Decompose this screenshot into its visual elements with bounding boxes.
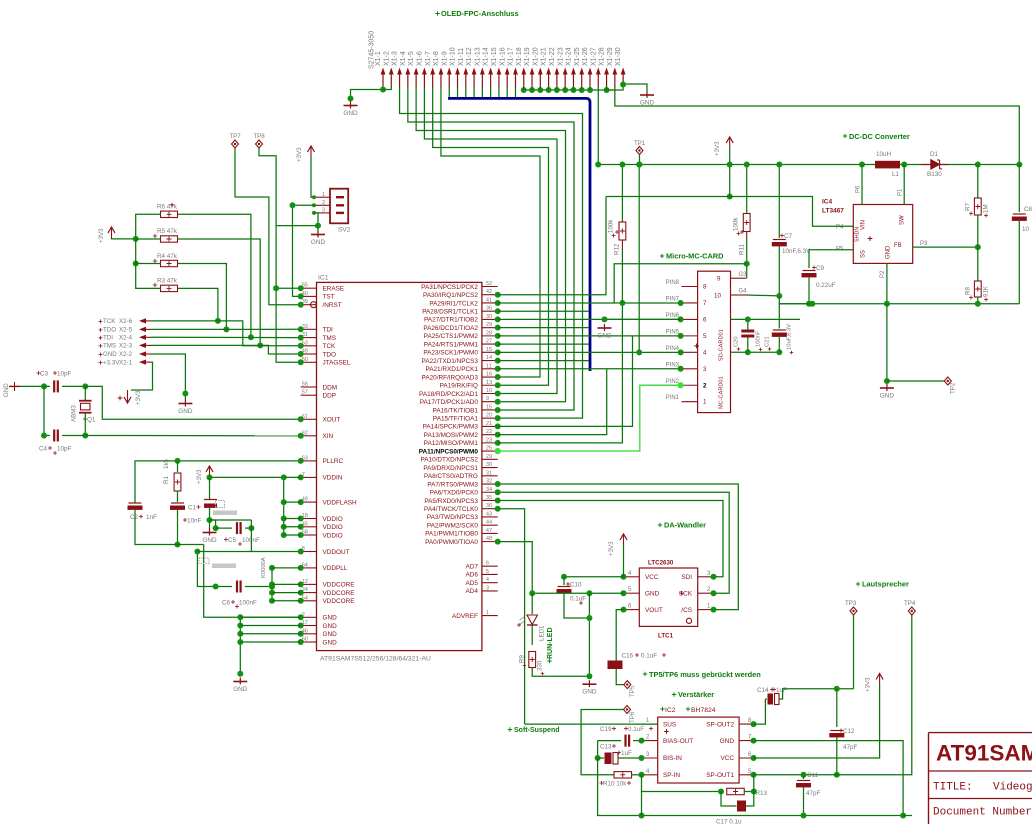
wire PA27 to MC PIN6 (GND net): [498, 318, 681, 320]
svg-text:1: 1: [322, 192, 325, 198]
svg-text:C16: C16: [622, 653, 634, 660]
svg-text:X1-5: X1-5: [408, 51, 415, 66]
svg-text:0.22uF: 0.22uF: [816, 282, 836, 289]
svg-text:C12: C12: [843, 728, 855, 735]
svg-text:9: 9: [486, 396, 489, 402]
wire MC PIN3 jog to PA13: [498, 369, 607, 435]
svg-text:36: 36: [486, 306, 492, 312]
ground DC-DC GND: [886, 384, 888, 391]
svg-text:R12: R12: [614, 243, 621, 255]
label Micro-MC-CARD: [660, 254, 664, 258]
svg-text:TCK: TCK: [103, 318, 116, 325]
svg-text:91K: 91K: [983, 285, 990, 297]
svg-text:PA14/SPCK/PWM3: PA14/SPCK/PWM3: [423, 424, 479, 431]
svg-text:GND: GND: [311, 239, 326, 246]
label DA-Wandler: [658, 523, 662, 527]
svg-text:/CS: /CS: [681, 607, 692, 614]
svg-text:ABM3: ABM3: [71, 405, 78, 422]
svg-text:TDI: TDI: [103, 335, 113, 342]
svg-text:PA24/RTS1/PWM1: PA24/RTS1/PWM1: [424, 341, 479, 348]
IC1 left pin stubs: [301, 287, 317, 289]
svg-text:P3: P3: [920, 241, 928, 247]
svg-text:VDDFLASH: VDDFLASH: [323, 499, 357, 506]
svg-text:TP1: TP1: [634, 140, 646, 147]
svg-text:PA5/RXD0/NPCS3: PA5/RXD0/NPCS3: [424, 498, 478, 505]
svg-text:PA8/CTS0/ADTRG: PA8/CTS0/ADTRG: [424, 473, 478, 480]
svg-text:X1-28: X1-28: [599, 47, 606, 66]
bus riders X1-9..X1-17 stubs into bus: [448, 87, 450, 97]
svg-text:C19: C19: [600, 726, 612, 733]
svg-text:3: 3: [322, 208, 325, 214]
power +3V3 rail arrow: [726, 137, 733, 143]
svg-text:Document Number: Document Number: [933, 807, 1032, 819]
svg-text:X1-29: X1-29: [607, 47, 614, 66]
svg-text:VDDIO: VDDIO: [323, 532, 343, 539]
svg-text:X1-12: X1-12: [466, 47, 473, 66]
wire TP7 to /NRST: [235, 148, 301, 305]
svg-text:TCK: TCK: [323, 343, 337, 350]
svg-text:1M: 1M: [983, 204, 990, 213]
svg-text:PIN3: PIN3: [666, 362, 680, 368]
svg-text:44: 44: [486, 520, 492, 526]
svg-text:1k5: 1k5: [163, 458, 170, 469]
svg-text:DC-DC Converter: DC-DC Converter: [849, 132, 910, 141]
svg-text:R11: R11: [739, 244, 746, 255]
svg-text:R4 47k: R4 47k: [157, 253, 178, 260]
svg-text:14: 14: [486, 355, 492, 361]
svg-text:TITLE:: TITLE:: [933, 782, 973, 794]
svg-text:AD5: AD5: [465, 580, 478, 587]
gray hatch bead near C5: [216, 501, 225, 508]
svg-text:GND: GND: [323, 639, 338, 646]
svg-text:SCK: SCK: [679, 590, 693, 597]
svg-text:C11: C11: [807, 772, 819, 779]
svg-text:21: 21: [486, 421, 492, 427]
svg-text:R6 47k: R6 47k: [157, 204, 178, 211]
svg-text:TP8: TP8: [253, 133, 265, 140]
svg-text:AT91SAM7S512/256/128/64/321-AU: AT91SAM7S512/256/128/64/321-AU: [320, 656, 431, 663]
svg-text:+3V3: +3V3: [135, 390, 142, 405]
svg-text:AD7: AD7: [465, 564, 478, 571]
svg-text:RUN-LED: RUN-LED: [547, 628, 554, 660]
vddpll/vddcore column: [271, 568, 273, 601]
svg-text:C20: C20: [734, 336, 740, 347]
svg-text:Lautsprecher: Lautsprecher: [862, 580, 909, 589]
pin X2-4 TDI: [99, 336, 103, 340]
svg-text:X1-23: X1-23: [557, 47, 564, 66]
svg-text:X1-8: X1-8: [433, 51, 440, 66]
svg-text:PA31/NPCS1/PCK2: PA31/NPCS1/PCK2: [421, 284, 478, 291]
svg-text:13: 13: [486, 380, 492, 386]
svg-text:VIN: VIN: [861, 220, 867, 230]
wire X2-1 to +3V3 down arrow: [131, 362, 153, 390]
svg-text:LT3467: LT3467: [822, 208, 844, 215]
svg-text:PA27/DTR1/TIOB2: PA27/DTR1/TIOB2: [424, 317, 478, 324]
svg-text:GND: GND: [202, 537, 217, 544]
svg-text:PA20/RF/IRQ0/AD3: PA20/RF/IRQ0/AD3: [422, 374, 479, 381]
svg-text:10: 10: [714, 293, 721, 300]
svg-text:28: 28: [486, 330, 492, 336]
wire C5 to VDDOUT: [251, 520, 300, 552]
wire X1-30 to GND: [607, 84, 647, 91]
svg-text:PIN8: PIN8: [666, 280, 680, 286]
gray hatch bead near C6: [199, 558, 209, 564]
wire PA4 to Soft-Suspend net: [498, 509, 525, 724]
svg-text:R13: R13: [756, 790, 768, 797]
svg-text:PA30/IRQ1/NPCS2: PA30/IRQ1/NPCS2: [423, 292, 478, 299]
wire gnd down to GND: [588, 593, 590, 676]
svg-text:PIN2: PIN2: [666, 379, 680, 385]
svg-text:X2-5: X2-5: [119, 327, 133, 334]
svg-text:100nF: 100nF: [756, 330, 762, 347]
svg-text:PIN7: PIN7: [666, 296, 680, 302]
wire right of card gnd line: [731, 318, 801, 320]
svg-text:R3 47k: R3 47k: [157, 278, 178, 285]
wire PA29 to MC PIN7: [498, 302, 681, 304]
svg-text:PIN1: PIN1: [666, 395, 680, 401]
svg-text:PA15/TF/TIOA1: PA15/TF/TIOA1: [433, 415, 478, 422]
wire +3V3 rail to MC PIN4 vdd: [638, 165, 640, 353]
svg-text:6: 6: [486, 561, 489, 567]
svg-text:XOUT: XOUT: [323, 417, 341, 424]
wire X1-29 long to right rail: [615, 87, 1019, 165]
svg-text:PA23/SCK1/PWM0: PA23/SCK1/PWM0: [423, 350, 478, 357]
pin X2-1 +3.3V: [99, 361, 103, 365]
svg-text:XIN: XIN: [323, 433, 334, 440]
svg-text:C6: C6: [222, 600, 231, 607]
power +3V3 amp: [876, 674, 883, 680]
wire X2-3 TMS to IC TDO: [151, 345, 301, 354]
svg-text:GND: GND: [323, 615, 338, 622]
svg-text:SV2: SV2: [338, 227, 351, 234]
svg-text:3: 3: [486, 585, 489, 591]
svg-text:1: 1: [486, 610, 489, 616]
svg-text:PA29/RI1/TCLK2: PA29/RI1/TCLK2: [429, 300, 478, 307]
svg-text:35: 35: [486, 495, 492, 501]
power +3V3 DAC: [620, 534, 627, 540]
svg-text:IC1: IC1: [318, 275, 329, 282]
ground top-left GND: [350, 102, 352, 109]
wire PA6 to DAC SCK: [498, 492, 730, 593]
label TP5/TP6 muss gebrueckt werden: [643, 672, 647, 676]
svg-text:GND: GND: [582, 689, 597, 696]
svg-text:10: 10: [486, 388, 492, 394]
svg-text:10nF,6.3V: 10nF,6.3V: [782, 248, 811, 255]
svg-text:4: 4: [486, 577, 489, 583]
svg-text:R8: R8: [965, 287, 972, 295]
svg-text:36: 36: [486, 503, 492, 509]
svg-text:20: 20: [486, 413, 492, 419]
wire X1-1 to GND: [351, 87, 384, 99]
wire X2-4 TDI to IC TMS: [151, 336, 301, 338]
wire X1-18..X1-28 ground row: [524, 89, 615, 91]
svg-text:1uF: 1uF: [621, 750, 632, 757]
svg-text:ERASE: ERASE: [323, 286, 345, 293]
svg-text:X2-6: X2-6: [119, 318, 133, 325]
wire PIN6 gnd line left: [605, 318, 681, 320]
svg-text:Verstärker: Verstärker: [678, 690, 714, 699]
svg-text:AT91SAM7S: AT91SAM7S: [936, 741, 1032, 766]
svg-text:10pF: 10pF: [57, 371, 72, 378]
wire bottom gnd run dots: [639, 813, 645, 819]
svg-text:8: 8: [703, 284, 707, 291]
svg-text:Soft-Suspend: Soft-Suspend: [514, 727, 560, 734]
wire PA0 to RUN-LED net: [498, 542, 533, 594]
svg-text:C5: C5: [228, 537, 237, 544]
wire JTAGSEL to gnd net: [276, 288, 301, 362]
svg-text:4: 4: [703, 349, 707, 356]
IC1 AD pins: [482, 565, 498, 567]
wire G3 net with R11 pullup: [614, 264, 747, 303]
svg-text:+3V3: +3V3: [714, 141, 721, 156]
svg-text:PA22/TXD1/NPCS3: PA22/TXD1/NPCS3: [422, 358, 479, 365]
svg-text:GND: GND: [343, 110, 358, 117]
svg-text:25: 25: [486, 446, 492, 452]
svg-text:5: 5: [486, 569, 489, 575]
svg-text:VDDIO: VDDIO: [323, 516, 343, 523]
svg-text:BIAS-OUT: BIAS-OUT: [663, 738, 693, 745]
svg-text:TP3: TP3: [845, 600, 857, 607]
wires PA28 PA26 PA24 PA22 into bus: [498, 310, 589, 312]
svg-text:15: 15: [486, 404, 492, 410]
svg-text:SHDN: SHDN: [855, 227, 861, 242]
svg-text:JTAGSEL: JTAGSEL: [323, 360, 351, 367]
svg-text:DA-Wandler: DA-Wandler: [664, 521, 706, 530]
svg-text:SP-OUT1: SP-OUT1: [706, 772, 734, 779]
svg-text:LTC1: LTC1: [658, 633, 674, 640]
svg-text:X1-2: X1-2: [383, 51, 390, 66]
svg-text:41: 41: [486, 297, 492, 303]
svg-text:1: 1: [703, 399, 707, 406]
wire VOUT net: [616, 610, 623, 655]
svg-text:30: 30: [486, 462, 492, 468]
wire right of card vdd: [731, 351, 780, 353]
svg-text:X1-9: X1-9: [441, 51, 448, 66]
svg-text:FB: FB: [894, 243, 902, 249]
wire SP-OUT2 to C14: [754, 699, 766, 724]
svg-text:L1: L1: [892, 171, 900, 178]
svg-text:VOUT: VOUT: [645, 607, 663, 614]
svg-text:56: 56: [302, 382, 308, 388]
svg-text:PA11/NPCS0/PWM0: PA11/NPCS0/PWM0: [419, 448, 479, 455]
svg-text:X1-17: X1-17: [508, 47, 515, 66]
svg-text:47pF: 47pF: [806, 790, 821, 797]
svg-text:P4: P4: [836, 225, 844, 231]
svg-text:C1: C1: [188, 505, 197, 512]
wire R12 junction to PA12: [498, 303, 623, 443]
vdd column VDDIN-VDDIO: [283, 477, 285, 535]
svg-text:PA12/MISO/PWM1: PA12/MISO/PWM1: [424, 440, 479, 447]
svg-text:VDDCORE: VDDCORE: [323, 582, 355, 589]
svg-text:C14: C14: [757, 687, 769, 694]
svg-text:X1-11: X1-11: [458, 48, 465, 66]
wire PA5 to DAC SDI: [498, 500, 723, 576]
svg-text:PA1/PWM1/TIOB0: PA1/PWM1/TIOB0: [425, 531, 478, 538]
svg-text:X1-21: X1-21: [541, 47, 548, 66]
pin X2-2 GND: [99, 353, 103, 357]
label RUN-LED: [547, 659, 551, 663]
svg-text:X1-13: X1-13: [474, 47, 481, 66]
svg-text:PA13/MOSI/PWM2: PA13/MOSI/PWM2: [424, 432, 479, 439]
svg-text:29: 29: [486, 454, 492, 460]
svg-text:X1-25: X1-25: [574, 47, 581, 66]
wire PLLRC net: [135, 461, 301, 503]
svg-text:GND: GND: [886, 245, 892, 259]
power +3V3 SV2: [308, 146, 315, 152]
svg-text:42: 42: [486, 289, 492, 295]
IC1 right pin stubs PA31..PA0: [482, 286, 498, 288]
svg-text:22: 22: [486, 429, 492, 435]
svg-text:X1-22: X1-22: [549, 47, 556, 66]
svg-text:P2: P2: [880, 270, 886, 278]
label OLED-FPC-Anschluss: [435, 11, 439, 15]
svg-text:57: 57: [302, 390, 308, 396]
svg-text:C17 0.1u: C17 0.1u: [716, 819, 742, 824]
svg-text:30: 30: [486, 314, 492, 320]
wire crystal to XIN: [85, 435, 300, 437]
svg-text:PA26/DCD1/TIOA2: PA26/DCD1/TIOA2: [423, 325, 478, 332]
svg-text:C3: C3: [40, 371, 49, 378]
label DC-DC Converter: [843, 134, 847, 138]
wire SP-IN node down to R13: [639, 772, 645, 778]
svg-text:DDM: DDM: [323, 384, 338, 391]
svg-text:+3.3V: +3.3V: [103, 359, 120, 366]
wire X2-5 TDO to IC TDI: [151, 328, 301, 330]
svg-text:K0000A: K0000A: [261, 557, 267, 578]
svg-text:10nF: 10nF: [187, 518, 202, 525]
svg-text:X2-2: X2-2: [119, 351, 133, 358]
wire C8 branch: [1018, 165, 1020, 213]
wire SV2 pin2 to TST: [293, 205, 315, 296]
wire X1-27 down to +3V3 rail: [597, 87, 599, 165]
svg-text:+3V3: +3V3: [98, 228, 105, 243]
svg-text:Micro-MC-CARD: Micro-MC-CARD: [666, 252, 724, 261]
wire LT3467 gnd down to GND/TP2: [886, 304, 888, 384]
svg-text:GND: GND: [597, 333, 612, 340]
svg-text:VCC: VCC: [721, 755, 735, 762]
svg-text:6: 6: [703, 316, 707, 323]
svg-text:SD-CARD01: SD-CARD01: [719, 329, 725, 361]
svg-text:ADVREF: ADVREF: [452, 613, 478, 620]
svg-text:+3V3: +3V3: [296, 147, 303, 162]
svg-text:X1-6: X1-6: [417, 51, 424, 66]
wire +3V3 to VDDIN row: [210, 476, 284, 478]
wire GND row to bottom: [754, 741, 904, 816]
svg-text:GND: GND: [645, 590, 660, 597]
label Verstaerker: [672, 692, 676, 696]
svg-text:VDDIN: VDDIN: [323, 475, 343, 482]
svg-text:C2: C2: [130, 514, 139, 521]
svg-text:TDO: TDO: [103, 327, 116, 334]
svg-text:X1-3: X1-3: [392, 51, 399, 66]
IC IC1 AT91SAM7S body: [317, 282, 482, 650]
svg-text:X1-18: X1-18: [516, 47, 523, 66]
svg-text:PLLRC: PLLRC: [323, 458, 344, 465]
svg-text:SS: SS: [861, 250, 867, 258]
svg-text:0.1uF: 0.1uF: [570, 596, 586, 603]
svg-text:VDDPLL: VDDPLL: [323, 565, 348, 572]
svg-text:48: 48: [486, 536, 492, 542]
svg-text:+3V3: +3V3: [865, 677, 872, 692]
wire PA7 to DAC /CS: [498, 484, 739, 610]
svg-text:LTC2630: LTC2630: [648, 560, 674, 567]
svg-text:PA17/TD/PCK1/AD0: PA17/TD/PCK1/AD0: [420, 399, 479, 406]
svg-text:X1-1: X1-1: [375, 51, 382, 66]
svg-text:AD6: AD6: [465, 572, 478, 579]
svg-text:LED1: LED1: [539, 625, 546, 641]
svg-text:PIN4: PIN4: [666, 346, 680, 352]
svg-text:10: 10: [1022, 226, 1030, 233]
title block frame: [929, 733, 1032, 824]
svg-text:VDDCORE: VDDCORE: [323, 590, 355, 597]
wire bright PA11 to MC PIN2 highlighted net: [498, 385, 681, 451]
svg-text:+3V3: +3V3: [608, 541, 615, 556]
IC1 GND rows to ground: [239, 617, 241, 673]
wire +3V3 to pull-up column: [112, 237, 136, 240]
svg-text:X1-14: X1-14: [483, 47, 490, 66]
svg-text:OLED-FPC-Anschluss: OLED-FPC-Anschluss: [441, 9, 519, 18]
wire X2-2 to GND: [151, 354, 185, 400]
svg-text:VCC: VCC: [645, 574, 659, 581]
svg-text:PA10/DTXD/NPCS2: PA10/DTXD/NPCS2: [420, 457, 478, 464]
svg-text:PA0/PWM0/TIOA0: PA0/PWM0/TIOA0: [425, 539, 478, 546]
label Lautsprecher: [856, 582, 860, 586]
IC1 right pin net dots: [495, 292, 501, 298]
svg-text:16: 16: [486, 372, 492, 378]
svg-text:7: 7: [703, 300, 707, 307]
svg-text:R5 47k: R5 47k: [157, 228, 178, 235]
svg-text:TP2: TP2: [950, 382, 957, 394]
svg-text:100nF: 100nF: [239, 600, 257, 607]
svg-text:R10 10k: R10 10k: [603, 781, 627, 788]
svg-text:PA19/RK/FIQ: PA19/RK/FIQ: [440, 383, 478, 390]
svg-text:PA21/RXD1/PCK1: PA21/RXD1/PCK1: [425, 366, 478, 373]
IC1 /NRST bubble: [311, 302, 317, 308]
svg-text:10uF,6.3V: 10uF,6.3V: [787, 324, 793, 350]
ground X2-2 GND: [184, 400, 186, 407]
svg-text:100k: 100k: [733, 217, 740, 231]
svg-text:PA25/CTS1/PWM2: PA25/CTS1/PWM2: [424, 333, 479, 340]
svg-text:X1-19: X1-19: [524, 47, 531, 66]
svg-text:15: 15: [486, 347, 492, 353]
svg-text:5: 5: [703, 333, 707, 340]
wire SP-OUT1 row: [754, 615, 912, 775]
svg-text:TP4: TP4: [904, 600, 916, 607]
wire PA30 to SHDN net: [498, 197, 606, 295]
svg-text:D1: D1: [930, 151, 939, 158]
svg-text:10pF: 10pF: [57, 446, 72, 453]
svg-text:GND: GND: [880, 393, 895, 400]
svg-text:G3: G3: [739, 272, 748, 278]
svg-text:/NRST: /NRST: [323, 302, 342, 309]
wire MC PIN5 jog to PA14: [498, 336, 633, 427]
svg-text:0.1uF: 0.1uF: [628, 726, 644, 733]
svg-text:PA2/PWM2/SCK0: PA2/PWM2/SCK0: [427, 522, 478, 529]
svg-text:VDDIO: VDDIO: [323, 524, 343, 531]
wire R13 up to SP-OUT1: [753, 775, 755, 792]
svg-text:TDO: TDO: [323, 351, 337, 358]
svg-text:P6: P6: [856, 185, 862, 193]
pin X2-5 TDO: [99, 328, 103, 332]
svg-text:DDP: DDP: [323, 393, 337, 400]
svg-text:SP-IN: SP-IN: [663, 772, 680, 779]
svg-text:X1-15: X1-15: [491, 47, 498, 66]
IC IC2 BH7824 body: [660, 707, 664, 711]
svg-text:PA6/TXD0/PCK0: PA6/TXD0/PCK0: [430, 490, 479, 497]
svg-text:TP6: TP6: [629, 711, 636, 723]
svg-text:GND: GND: [720, 738, 735, 745]
wire GND line dc-dc: [780, 303, 1020, 305]
